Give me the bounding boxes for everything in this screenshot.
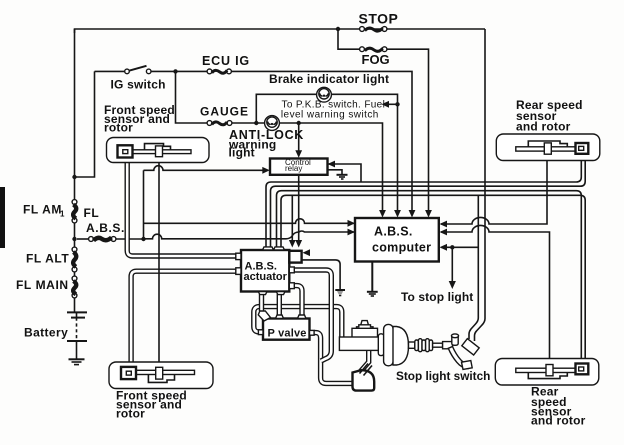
svg-text:A.B.S.: A.B.S. (374, 225, 413, 239)
svg-text:light: light (229, 145, 255, 159)
svg-text:rotor: rotor (104, 121, 133, 135)
svg-text:level warning switch: level warning switch (281, 110, 379, 121)
svg-text:relay: relay (285, 164, 302, 173)
svg-text:STOP: STOP (359, 11, 399, 27)
svg-text:To stop light: To stop light (401, 290, 473, 304)
svg-text:P valve: P valve (268, 327, 307, 339)
svg-text:Battery: Battery (24, 326, 68, 340)
svg-text:FL: FL (84, 206, 100, 220)
svg-text:Stop light switch: Stop light switch (396, 369, 490, 383)
svg-text:rotor: rotor (116, 406, 145, 420)
svg-text:FL ALT: FL ALT (26, 252, 69, 266)
svg-text:IG switch: IG switch (111, 78, 166, 92)
svg-text:actuator: actuator (244, 271, 288, 283)
svg-text:A.B.S.: A.B.S. (86, 221, 125, 235)
svg-text:FOG: FOG (362, 52, 390, 67)
svg-text:FL AM: FL AM (23, 203, 62, 217)
svg-text:computer: computer (372, 240, 431, 254)
svg-text:Brake indicator light: Brake indicator light (269, 72, 389, 86)
svg-text:and rotor: and rotor (516, 119, 571, 133)
svg-text:GAUGE: GAUGE (200, 105, 249, 119)
svg-text:1: 1 (60, 210, 65, 219)
svg-text:FL MAIN: FL MAIN (16, 278, 69, 292)
svg-text:ECU IG: ECU IG (202, 54, 250, 68)
svg-text:and rotor: and rotor (531, 414, 586, 428)
